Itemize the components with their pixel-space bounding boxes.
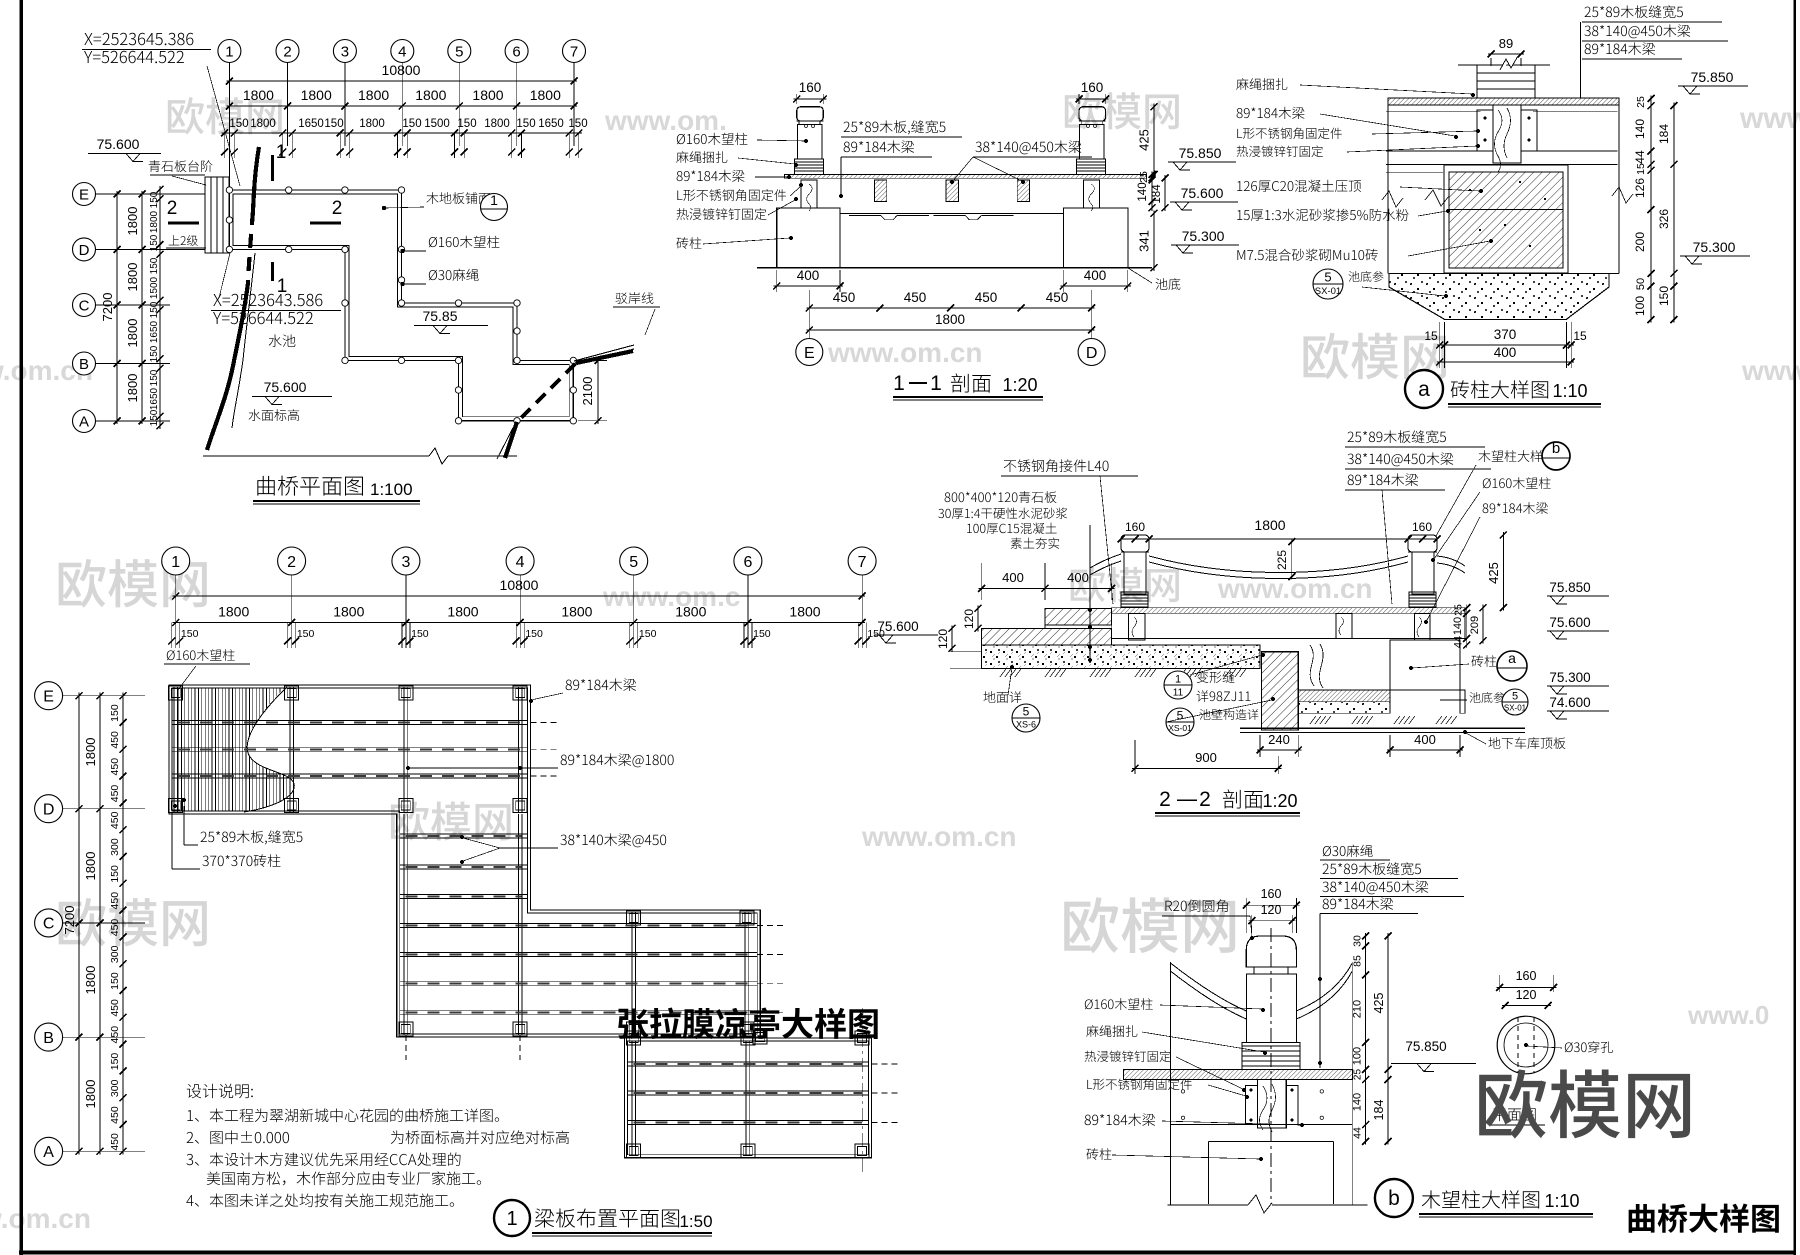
watermark 欧模网 top-left <box>168 97 282 134</box>
svg-text:3: 3 <box>401 554 410 571</box>
svg-text:1800: 1800 <box>125 374 140 403</box>
labels left detail b <box>1165 899 1227 912</box>
post below deck with wood grain <box>1493 105 1521 163</box>
label 89*184木梁 beam plan <box>566 678 636 691</box>
plan dim row 1800x6 <box>226 105 577 107</box>
label 木望柱大样详 with circle b <box>1478 450 1555 462</box>
svg-text:B: B <box>43 1030 54 1047</box>
post joists wood grain 2-2 <box>1128 613 1145 640</box>
svg-text:1800: 1800 <box>1254 517 1285 533</box>
svg-text:3: 3 <box>341 43 349 60</box>
brick column below detail b <box>1207 1142 1209 1205</box>
svg-text:1800: 1800 <box>675 604 706 620</box>
plan vertical dims 1800 <box>141 191 143 424</box>
svg-text:1800: 1800 <box>484 118 510 130</box>
svg-text:100: 100 <box>1352 1047 1364 1065</box>
sheet border left <box>19 0 23 1255</box>
plan vertical dim 7200 <box>116 191 118 424</box>
brick column outer <box>1444 165 1568 273</box>
svg-text:1: 1 <box>490 192 498 208</box>
post cap dome <box>1246 936 1296 967</box>
pier detail bottom dims <box>1439 322 1441 368</box>
label 木地板铺面 with detail circle 1 <box>426 192 490 204</box>
svg-text:209: 209 <box>1469 616 1481 634</box>
dim 160 1800 160 row <box>1121 538 1437 540</box>
left post shaft <box>797 124 822 158</box>
svg-text:2: 2 <box>1199 788 1211 811</box>
svg-text:450: 450 <box>109 758 121 776</box>
svg-text:150: 150 <box>149 234 160 251</box>
watermark 欧模网 2-2 left <box>1071 567 1179 603</box>
labels left of 2-2 <box>945 491 1057 503</box>
svg-text:100: 100 <box>1633 296 1647 316</box>
label Ø160木望柱 beam plan <box>167 649 235 661</box>
design notes 设计说明 <box>187 1084 253 1099</box>
svg-text:1800: 1800 <box>301 87 332 103</box>
svg-text:150: 150 <box>109 972 121 990</box>
right dim chain 2 detail b <box>1387 933 1389 1145</box>
stone steps hatched 2-2 <box>1045 608 1112 625</box>
beam plan band4 inner <box>627 1041 868 1155</box>
svg-text:450: 450 <box>109 1133 121 1151</box>
svg-text:1800: 1800 <box>789 604 820 620</box>
joists band3 <box>631 912 633 1035</box>
label 370*370砖柱 <box>202 854 280 867</box>
foundation ground line <box>1389 272 1619 274</box>
svg-text:C: C <box>79 297 90 314</box>
svg-text:126: 126 <box>1633 178 1647 198</box>
plan view: grid axis bubbles 1-7 <box>218 40 241 63</box>
svg-text:140: 140 <box>1352 1093 1364 1111</box>
svg-text:225: 225 <box>1275 550 1289 570</box>
svg-text:4: 4 <box>398 43 406 60</box>
watermark 欧模网 top-middle <box>1065 92 1179 129</box>
svg-text:450: 450 <box>975 290 998 305</box>
watermark 欧模网 left beam plan <box>59 559 207 608</box>
svg-text:75.85: 75.85 <box>422 308 457 324</box>
svg-text:450: 450 <box>109 785 121 803</box>
dim 425 right 2-2 <box>1502 532 1504 611</box>
svg-text:25: 25 <box>1453 604 1465 616</box>
svg-text:1800: 1800 <box>530 87 561 103</box>
deck edge verticals pier detail <box>1387 98 1389 273</box>
foundation footing with stipple <box>1389 273 1609 319</box>
right post cap <box>1079 107 1106 121</box>
svg-text:210: 210 <box>1352 1000 1364 1018</box>
svg-text:2: 2 <box>167 198 178 219</box>
plan grid axis stems <box>228 63 230 147</box>
svg-text:1800: 1800 <box>83 738 98 767</box>
svg-text:5: 5 <box>1324 270 1331 285</box>
watermark 欧模网 left lower <box>59 898 207 947</box>
bottom dims 450x4 <box>806 307 1094 309</box>
svg-text:150: 150 <box>297 628 315 640</box>
section 2-2: right post <box>1408 535 1437 552</box>
left pier <box>777 208 840 268</box>
svg-text:2: 2 <box>283 43 291 60</box>
svg-text:1800: 1800 <box>359 118 385 130</box>
labels top of 2-2 <box>1004 459 1109 472</box>
svg-text:10800: 10800 <box>500 577 539 593</box>
plan coordinate label X=2523643.586 <box>213 294 322 306</box>
beam plan dim 10800 <box>173 595 865 597</box>
label 地面详 circle 5/XS-6 <box>984 691 1022 703</box>
boundary verticals post detail <box>1169 962 1171 1205</box>
bottom baseline with break <box>1168 1204 1248 1206</box>
stream bank thick left <box>253 147 259 211</box>
svg-text:1650: 1650 <box>538 118 564 130</box>
sheet title 曲桥大样图 <box>1629 1204 1779 1233</box>
right post rope wrap <box>1077 159 1106 175</box>
svg-text:D: D <box>1086 345 1098 362</box>
svg-text:140: 140 <box>1137 182 1149 201</box>
svg-text:1:100: 1:100 <box>370 480 413 499</box>
dim 225 rope sag <box>1291 539 1293 580</box>
beam plan left grid bubbles E-A <box>35 682 63 710</box>
svg-text:400: 400 <box>797 268 820 283</box>
beam plan vertical dims 1800 <box>99 693 101 1155</box>
svg-text:7: 7 <box>858 554 867 571</box>
label 上2级 <box>169 235 198 246</box>
plan dim row ticks below <box>224 133 226 158</box>
svg-text:5: 5 <box>455 43 463 60</box>
beam plan dims 1800 <box>173 622 865 624</box>
bottom dim 400 left <box>776 270 778 292</box>
svg-text:1800: 1800 <box>218 604 249 620</box>
ground line left of steps <box>950 651 982 653</box>
label 池底 <box>1128 268 1152 283</box>
svg-text:150: 150 <box>149 409 160 426</box>
label 水池 <box>269 334 296 347</box>
svg-text:85: 85 <box>1352 955 1364 967</box>
svg-text:400: 400 <box>1067 570 1089 585</box>
deck plank band detail b <box>1124 1069 1353 1079</box>
post wood grain through beam <box>1257 1080 1286 1128</box>
svg-text:150: 150 <box>324 118 343 130</box>
svg-text:140: 140 <box>1633 119 1647 139</box>
pier detail right dim chain 2 <box>1673 103 1675 323</box>
svg-text:1:20: 1:20 <box>1262 791 1297 811</box>
svg-text:XS-6: XS-6 <box>1016 720 1036 730</box>
svg-text:2: 2 <box>332 198 343 219</box>
dim 2100 right of plan <box>578 359 607 361</box>
svg-text:150: 150 <box>1657 286 1671 306</box>
svg-text:150: 150 <box>181 628 199 640</box>
brick column hatched inner <box>1449 172 1563 268</box>
stream bank thick right upper <box>576 351 633 363</box>
svg-text:C: C <box>43 916 55 933</box>
bold title 张拉膜凉亭大样图 <box>618 1007 877 1039</box>
svg-text:341: 341 <box>1137 230 1152 252</box>
svg-text:240: 240 <box>1268 732 1290 747</box>
svg-text:425: 425 <box>1486 562 1501 584</box>
svg-text:1: 1 <box>225 43 233 60</box>
svg-text:450: 450 <box>1046 290 1069 305</box>
post detail: centerline <box>1270 928 1272 1204</box>
svg-text:44: 44 <box>1453 636 1465 648</box>
svg-text:www.om.cn: www.om.cn <box>1217 573 1373 604</box>
svg-text:150: 150 <box>149 301 160 318</box>
svg-text:50: 50 <box>1635 278 1647 290</box>
pier detail title a 砖柱大样图 1:10 <box>1405 370 1443 408</box>
svg-text:425: 425 <box>1372 993 1386 1014</box>
drain dips <box>849 215 881 217</box>
post joists with wood grain <box>801 180 817 208</box>
svg-text:150: 150 <box>109 704 121 722</box>
deck plank band 2-2 <box>1112 608 1465 614</box>
svg-text:75.600: 75.600 <box>97 136 140 152</box>
svg-text:www.om.cn: www.om.cn <box>827 337 983 368</box>
svg-text:SX-01: SX-01 <box>1504 704 1527 713</box>
label 38*140@450木梁 <box>975 140 1081 154</box>
svg-text:75.300: 75.300 <box>1182 228 1225 244</box>
svg-text:400: 400 <box>1494 345 1517 360</box>
svg-text:1800: 1800 <box>935 312 965 327</box>
svg-text:25: 25 <box>1353 1069 1364 1081</box>
post detail title b 木望柱大样图 1:10 <box>1375 1179 1413 1217</box>
beam plan walkway outline outer <box>169 685 760 1037</box>
label Ø160木望柱 <box>429 236 500 248</box>
bottom dim 400 right <box>1062 270 1064 292</box>
plan left grid bubbles E-A <box>73 183 96 206</box>
svg-text:160: 160 <box>1125 520 1145 534</box>
post shaft detail b <box>1246 974 1296 1042</box>
svg-text:30: 30 <box>1352 935 1364 947</box>
svg-text:150: 150 <box>516 118 535 130</box>
dims 25 140 right <box>1151 171 1153 210</box>
svg-text:25: 25 <box>1138 171 1150 183</box>
posts lower bands <box>399 1022 413 1036</box>
soil hatch groups below gravel <box>1000 669 1006 677</box>
label 青石板台阶 <box>149 160 213 172</box>
svg-text:www.om.c: www.om.c <box>602 581 740 612</box>
label 砖柱 circle a 2-2 <box>1471 655 1496 667</box>
svg-text:150: 150 <box>568 118 587 130</box>
right post shaft <box>1080 124 1105 158</box>
svg-text:150: 150 <box>867 628 885 640</box>
svg-text:www.0: www.0 <box>1687 1000 1769 1030</box>
plank S-curve boundary <box>244 687 294 812</box>
svg-text:160: 160 <box>1261 887 1282 901</box>
svg-text:450: 450 <box>904 290 927 305</box>
svg-text:150: 150 <box>457 118 476 130</box>
beam plan walkway outline inner <box>172 688 757 1034</box>
right pier 2-2 <box>1390 640 1460 690</box>
label 89*184木梁 2-2 <box>1483 502 1548 514</box>
svg-text:E: E <box>804 345 815 362</box>
svg-text:1: 1 <box>1175 674 1181 686</box>
stone steps rectangle 青石板台阶 <box>205 177 229 253</box>
swag ropes between posts <box>1149 556 1408 573</box>
svg-text:120: 120 <box>962 609 976 629</box>
left post rope wrap <box>794 159 823 175</box>
svg-text:75.850: 75.850 <box>1405 1039 1446 1054</box>
svg-text:5: 5 <box>1177 709 1184 723</box>
stream thin companion right <box>497 424 515 459</box>
shore exit slanted lines <box>574 345 634 361</box>
dim 120 steps <box>977 605 979 631</box>
svg-text:89: 89 <box>1499 36 1513 51</box>
svg-text:1: 1 <box>893 372 905 395</box>
svg-text:5: 5 <box>629 554 638 571</box>
horizontal beams band3 <box>400 923 757 925</box>
svg-text:1800: 1800 <box>472 87 503 103</box>
svg-text:5: 5 <box>1023 705 1030 719</box>
svg-text:11: 11 <box>1173 688 1184 699</box>
svg-text:7: 7 <box>570 43 578 60</box>
dims 160 120 above cap <box>1245 898 1247 933</box>
label 驳岸线 <box>616 292 654 304</box>
svg-text:44: 44 <box>1633 150 1647 164</box>
plan circle of post <box>1497 1016 1555 1074</box>
label 池底参 circle 5/SX-01 2-2 <box>1470 692 1505 703</box>
svg-text:150: 150 <box>149 257 160 274</box>
svg-text:75.850: 75.850 <box>1179 145 1222 161</box>
svg-text:400: 400 <box>1414 732 1436 747</box>
svg-text:150: 150 <box>109 865 121 883</box>
sheet border bottom <box>19 1251 1796 1255</box>
label 变形缝 详98ZJ11 circle 1/11 <box>1164 671 1192 699</box>
pool floor slabs 2-2 <box>1298 690 1390 702</box>
bridge deck node posts <box>226 187 232 193</box>
horizontal beams band1 <box>172 720 528 722</box>
pool bottom edge with break <box>203 455 429 457</box>
beam plan axis stems <box>175 575 177 648</box>
labels left column of section 1-1 <box>677 133 748 145</box>
svg-text:150: 150 <box>149 345 160 362</box>
svg-text:200: 200 <box>1633 232 1647 252</box>
beam plan band4 outer <box>624 1038 871 1158</box>
detail circle 5/SX-01 池底参 <box>1313 269 1343 299</box>
svg-text:120: 120 <box>1516 988 1537 1002</box>
svg-text:a: a <box>1508 650 1516 666</box>
stream bank thin companion <box>232 253 255 428</box>
svg-text:XS-01: XS-01 <box>1168 723 1192 733</box>
pool wall hatched 2-2 <box>1262 652 1299 730</box>
svg-text:1:10: 1:10 <box>1552 381 1587 401</box>
svg-text:b: b <box>1388 1187 1400 1210</box>
svg-text:2: 2 <box>287 554 296 571</box>
svg-text:150: 150 <box>109 1053 121 1071</box>
svg-text:44: 44 <box>1352 1127 1364 1139</box>
svg-text:1800: 1800 <box>243 87 274 103</box>
svg-text:75.850: 75.850 <box>1549 580 1590 595</box>
right pier <box>1063 208 1128 268</box>
svg-text:450: 450 <box>109 811 121 829</box>
dim 341 <box>1153 210 1155 270</box>
svg-text:A: A <box>43 1144 54 1161</box>
beam plan vertical dim 7200 <box>78 693 80 1155</box>
svg-text:150: 150 <box>149 191 160 208</box>
bridge deck outline inner <box>233 194 569 417</box>
svg-text:A: A <box>79 413 89 430</box>
svg-text:D: D <box>79 242 90 259</box>
dim 184 right <box>1164 175 1166 211</box>
beam plan small dims column <box>122 693 124 1155</box>
svg-text:160: 160 <box>1081 80 1104 95</box>
plan dim 10800 <box>226 80 577 82</box>
svg-text:450: 450 <box>109 892 121 910</box>
sheet border right <box>1793 0 1796 1255</box>
watermark 欧模网 mid-right <box>1304 333 1447 380</box>
svg-text:120: 120 <box>936 629 950 649</box>
svg-text:1800: 1800 <box>125 263 140 292</box>
stream dashed diagonal right <box>518 364 575 421</box>
joists band4 <box>631 1041 633 1155</box>
pier detail right dim chain 1 <box>1650 96 1652 323</box>
svg-text:400: 400 <box>1084 268 1107 283</box>
svg-text:E: E <box>79 186 89 203</box>
svg-text:160: 160 <box>799 80 822 95</box>
svg-text:140: 140 <box>1452 617 1464 635</box>
svg-text:120: 120 <box>1261 903 1282 917</box>
beam plan 150 labels <box>171 623 173 649</box>
post detail: top label stack <box>1323 845 1373 857</box>
section 1-1: left post cap <box>797 107 824 121</box>
rope wrap band detail b <box>1242 1042 1300 1069</box>
swag ropes outside posts <box>1090 554 1121 568</box>
posts band1 <box>169 686 183 700</box>
svg-text:1800: 1800 <box>83 1080 98 1109</box>
svg-text:150: 150 <box>411 628 429 640</box>
horizontal beams band4 <box>627 1061 868 1063</box>
membrane curve in pool <box>1310 645 1314 686</box>
svg-text:75.850: 75.850 <box>1691 69 1734 85</box>
dims 25 140 44 209 <box>1466 605 1468 648</box>
beam plan vertical joists band1 <box>173 687 175 812</box>
svg-text:w.om.cn: w.om.cn <box>0 1203 91 1234</box>
svg-text:450: 450 <box>109 731 121 749</box>
axis 7 centerline in band4 <box>861 1008 863 1174</box>
svg-text:75.300: 75.300 <box>1693 239 1736 255</box>
joists strip <box>403 814 405 1035</box>
svg-text:425: 425 <box>1137 129 1152 151</box>
svg-text:1:20: 1:20 <box>1002 375 1037 395</box>
svg-text:1650: 1650 <box>298 118 324 130</box>
stream bank thick right lower <box>505 422 517 458</box>
dim 425 right <box>1153 104 1155 178</box>
svg-text:www.: www. <box>1739 102 1800 135</box>
svg-text:75.600: 75.600 <box>1549 615 1590 630</box>
label 水面标高 <box>249 409 300 421</box>
svg-text:450: 450 <box>109 1106 121 1124</box>
svg-text:5: 5 <box>1512 691 1518 703</box>
dashed beam stubs <box>530 722 558 724</box>
vertical leader to deck <box>1319 914 1321 1069</box>
svg-text:1500: 1500 <box>149 276 160 299</box>
label Ø30穿孔 <box>1565 1041 1613 1053</box>
label 地下车库顶板 <box>1489 737 1566 749</box>
svg-text:25: 25 <box>1635 96 1647 108</box>
dims 160 120 plan circle <box>1499 975 1501 992</box>
plan dim row small 150/1800/1650 <box>222 132 582 134</box>
svg-text:7200: 7200 <box>100 293 115 322</box>
svg-text:6: 6 <box>512 43 520 60</box>
wood block 25x89 <box>1477 65 1535 98</box>
svg-text:4: 4 <box>516 554 525 571</box>
garage roof slab <box>1240 727 1525 729</box>
svg-text:D: D <box>43 802 55 819</box>
svg-text:7200: 7200 <box>62 906 77 935</box>
svg-text:400: 400 <box>1002 570 1024 585</box>
svg-text:1800: 1800 <box>83 852 98 881</box>
svg-text:75.600: 75.600 <box>1181 185 1224 201</box>
svg-text:450: 450 <box>109 999 121 1017</box>
svg-text:b: b <box>1552 440 1560 457</box>
L angle plates <box>1477 110 1493 151</box>
svg-text:1: 1 <box>277 276 288 297</box>
right dim chain detail b <box>1365 933 1367 1145</box>
